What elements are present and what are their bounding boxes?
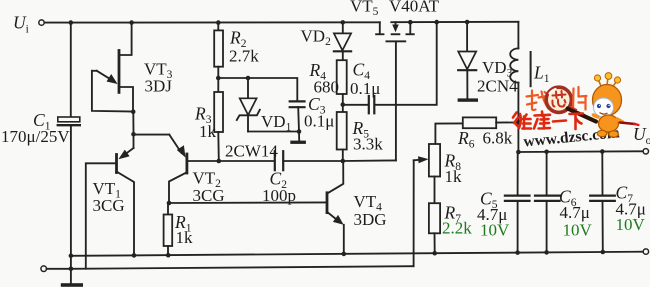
MOSFET VT5 gate arrow	[395, 22, 397, 26]
node VD3 on rail	[465, 20, 470, 25]
capacitor C4 coupling	[343, 104, 368, 106]
svg-text:3.3k: 3.3k	[353, 135, 383, 154]
svg-text:2CW14: 2CW14	[225, 142, 278, 161]
wire top rail right segment	[391, 21, 518, 23]
svg-text:0.1μ: 0.1μ	[304, 112, 334, 131]
capacitor C7	[600, 149, 605, 154]
svg-text:2.7k: 2.7k	[229, 47, 259, 66]
ground symbol VD3	[458, 98, 478, 101]
capacitor C2	[274, 151, 276, 170]
node VT3 emitter junction	[131, 109, 136, 114]
terminal ground input bottom	[41, 266, 47, 272]
transistor VT3 base bar	[118, 51, 121, 93]
wire output line	[518, 150, 643, 153]
node R1 top junction	[167, 201, 172, 206]
watermark magnifier lens with char xin	[546, 87, 571, 112]
transistor VT1 base bar	[115, 155, 118, 173]
svg-text:10V: 10V	[616, 215, 646, 234]
MOSFET VT5 right terminal	[408, 20, 413, 25]
node VT3 collector on rail	[129, 20, 134, 25]
terminal output bottom right	[643, 249, 648, 254]
terminal Uo	[643, 149, 648, 154]
wire C1 bottom down to bottom rail	[70, 125, 72, 269]
diode VD2	[342, 22, 344, 33]
MOSFET VT5 channel bar	[386, 40, 407, 42]
svg-text:10V: 10V	[563, 221, 593, 240]
MOSFET VT5 left terminal	[379, 22, 381, 32]
wire VT3 collector to rail	[119, 23, 132, 55]
resistor R1	[167, 203, 169, 215]
wire junction down to diff-pair node	[132, 112, 134, 135]
node C1 bottom on line1	[69, 254, 74, 259]
transistor VT3 emitter lead with arrow	[92, 70, 97, 72]
wire feedback line2 bottom	[71, 266, 414, 269]
node VT1 collector on line1	[132, 253, 137, 258]
capacitor C1 (polarized)	[58, 117, 80, 122]
wire bottom rail line1	[71, 252, 643, 256]
wire junction to VT5 source column	[343, 159, 396, 162]
wire VT4 base line	[169, 201, 327, 204]
watermark mascot	[593, 73, 639, 138]
node A between R4 and R5	[341, 102, 346, 107]
svg-text:10V: 10V	[480, 221, 510, 240]
node diff pair emitters	[131, 132, 136, 137]
watermark char zhao (find)	[527, 91, 551, 111]
resistor R6	[435, 123, 462, 144]
svg-text:4.7μ: 4.7μ	[560, 203, 590, 222]
node R2 on rail	[216, 20, 221, 25]
wire from bottom-left terminal to ground node	[47, 268, 71, 270]
svg-text:1k: 1k	[176, 228, 194, 247]
svg-text:0.1μ: 0.1μ	[350, 79, 380, 98]
node R1 bottom on line1	[166, 253, 171, 258]
svg-text:680: 680	[314, 78, 340, 97]
wiper arrow R8	[414, 159, 422, 162]
transistor VT1 emitter lead with arrow	[133, 134, 135, 148]
resistor R4	[337, 60, 347, 94]
svg-text:V40AT: V40AT	[389, 0, 440, 16]
wire VT3 emitter loop left-down	[92, 71, 133, 112]
capacitor C6	[544, 150, 549, 155]
node L1 output junction	[516, 150, 521, 155]
capacitor C5	[517, 152, 519, 195]
svg-text:100p: 100p	[262, 186, 296, 205]
wire C4 right to rail riser	[375, 22, 437, 105]
inductor L1	[517, 22, 519, 49]
svg-text:3DJ: 3DJ	[145, 77, 173, 96]
ground symbol C3	[298, 132, 300, 141]
svg-text:3CG: 3CG	[93, 196, 125, 215]
node C3 bottom	[297, 129, 302, 134]
node R7 bottom on line1	[432, 251, 437, 256]
node VD1 top	[246, 76, 251, 81]
node R3 bottom junction	[217, 159, 222, 164]
svg-text:2CN4: 2CN4	[477, 77, 518, 96]
wire VT5 channel lead down	[395, 42, 397, 160]
terminal Ui input	[39, 20, 44, 25]
svg-text:6.8k: 6.8k	[483, 129, 513, 148]
wire VT2 collector down to R1 top	[169, 172, 187, 203]
node C4 riser on rail	[434, 20, 439, 25]
wire top rail left segment	[44, 21, 380, 23]
wire VD1 bottom to C3 bottom	[248, 131, 299, 133]
wire R2-bottom to C3 column	[218, 78, 297, 100]
node ground junction	[69, 267, 74, 272]
transistor VT2 base bar	[185, 154, 188, 173]
wire VT2 base line right	[187, 160, 274, 162]
wire VT2 emitter arm with arrow	[134, 134, 170, 136]
diode VD3	[466, 22, 468, 52]
node R2 bottom junction	[216, 76, 221, 81]
svg-text:3CG: 3CG	[193, 186, 225, 205]
svg-text:170μ/25V: 170μ/25V	[1, 127, 70, 146]
resistor R2	[217, 23, 219, 31]
svg-text:1k: 1k	[445, 167, 463, 186]
node VD2 on rail	[341, 20, 346, 25]
wire VT1 base to left and down to feedback line	[86, 163, 117, 268]
wire VT3 base tap down	[119, 87, 133, 112]
node R6 tap on L1 column	[516, 120, 521, 125]
node C2-R5-VT4 junction	[341, 159, 346, 164]
svg-text:1k: 1k	[199, 122, 217, 141]
transistor VT4 base bar	[326, 193, 329, 213]
ground symbol main	[70, 269, 72, 283]
node C1 on rail	[69, 20, 74, 25]
zener diode VD1	[247, 78, 249, 98]
transistor VT4 emitter with arrow	[327, 212, 339, 222]
wire wiper down to line2	[413, 160, 415, 266]
svg-text:3DG: 3DG	[354, 210, 387, 229]
node VT4 emitter on line1	[342, 252, 347, 257]
watermark text weikuyixia	[513, 112, 583, 130]
watermark char pian (piece)	[573, 87, 587, 110]
resistor R5	[342, 105, 344, 112]
resistor R7	[434, 177, 436, 204]
wire VT4 collector up to junction	[327, 161, 343, 194]
wire VT1 collector down	[117, 172, 135, 256]
svg-text:2.2k: 2.2k	[442, 219, 472, 238]
resistor R3	[217, 78, 219, 92]
capacitor C3	[290, 100, 305, 102]
potentiometer R8	[429, 144, 440, 177]
wire C1 branch down from rail	[70, 23, 72, 117]
watermark magnifier handle	[568, 109, 597, 122]
